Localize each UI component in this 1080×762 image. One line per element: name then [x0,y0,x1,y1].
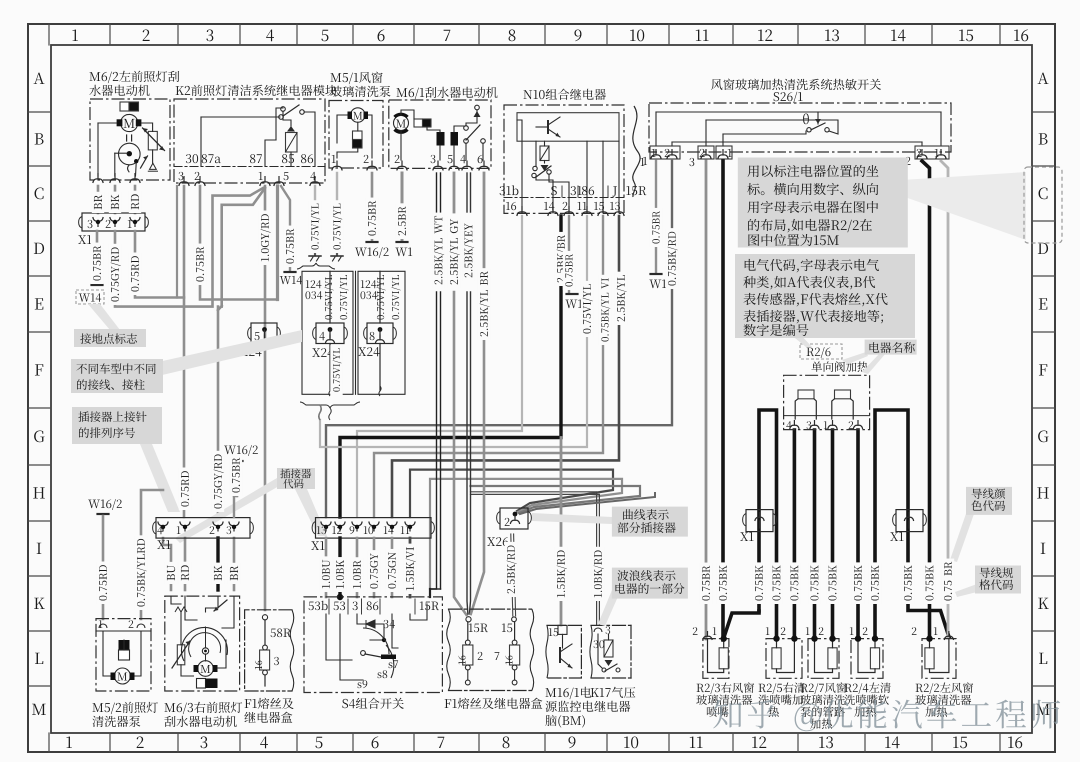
wire K2 pin5 [276,186,279,300]
M6/2 spark arrow [141,156,148,168]
fuse box F1-right [449,608,532,610]
M6/1 windings [437,132,445,146]
R2/6 pin forks [790,420,799,429]
wire M16 branch 1.5BK/RD [560,438,563,626]
M5/1 pin forks [332,161,342,171]
connector X26 [500,508,528,529]
wire bus N10 p11 to variants [320,216,587,447]
M5/1 pump body [353,131,363,140]
wire S26 pin2r to R2/2 pin2 [922,161,930,639]
N10 pin numbers [506,202,516,210]
fuse box F1-left [245,610,292,691]
wire S26 pin1r 0.75BR to R2/2 pin1 [941,161,948,637]
grid row letters [34,73,45,84]
wire bus N10 p15 to X1m p10 [374,216,603,517]
M6/2 motor M [121,114,138,131]
wire bus X26 feed3 [471,486,641,513]
S26/1 pin forks [651,149,661,159]
wire M6/1 pin2 2.5BR to W1 [401,173,404,240]
M6/3 resistor [177,645,185,665]
wire bus X26 feed1 to X1m p11 [410,470,613,517]
R2/6 pin numbers [786,421,791,429]
wire R2/6 pin2 to R2/4 pin1 [856,430,860,639]
wire bridge R2/3 to R2/5 [759,410,777,639]
wire R2/6 pin3 to R2/7 pin1 [813,430,817,639]
K17 relay coil [604,640,613,657]
wiper motor M6/3 label [165,702,243,714]
wire 0.75BR to W14 [96,231,99,283]
wire 0.75RD [135,231,184,298]
heater R2/4 label [845,683,891,694]
variant box right [358,271,405,394]
M6/2 pump circle [119,143,141,165]
C cell dashed highlight [1024,167,1062,243]
wire R2/6 pin4 to R2/5 pin2 [793,430,797,639]
switch S26/1 label [711,79,881,90]
fuse box F1-right label [445,698,543,709]
wire R2/6 pin1 to R2/7 pin2 [831,430,835,639]
switch S4 label [342,698,403,709]
wire X1mid to S4 labels [325,538,328,597]
wire 0.75GY/RD to K2 pin1 [115,188,263,307]
M16/1 pin 15 [558,625,567,634]
connector X24 pin8 [367,323,393,344]
wire K2 pin3 pair down [176,186,178,298]
callout wire-gauge-code box [955,584,977,597]
callout ground-mark [88,304,120,330]
F1-right fuse 2 [467,622,469,640]
callout beam to R2/6 [790,334,812,347]
relay module K2 box [174,99,325,183]
M6/2 resistor [148,131,157,150]
M6/3 park rect [197,679,206,689]
callout connector-code [295,489,327,536]
wire bus X26 feed4 K17 run [471,492,597,625]
ECU M16/1 label [546,687,592,699]
heater R2/2 [922,639,956,679]
wire 0.75BK/YLRD to M5/2 [141,490,163,619]
motor M6/2 box [90,99,170,180]
K17 switch [602,668,606,672]
F1-right fuse 7 [514,622,516,640]
N10 transistor symbol [547,121,549,133]
N10 internal wires [517,120,522,213]
heater R2/3 nozzle [703,639,729,679]
N10 right wavy part-line [633,106,640,197]
pump M5/1 label [331,72,383,85]
wire 1.0GY/RD K2 pin1 to F1 [264,186,267,610]
wire M5/1 pin2 0.75BR to W16/2 [371,173,374,240]
M6/3 motor M [198,661,214,677]
relay N10 box [504,105,624,213]
N10 relay coil [540,146,549,161]
wire 2.5BK/YL BR [483,173,486,283]
junction dot S4 53 [337,594,343,600]
S26/1 pin numbers [652,149,656,157]
connector X24 pin5 [251,323,277,344]
M6/1 park switch rect [414,119,423,127]
M16/1 transistor [559,648,561,662]
callout position-coordinates box [738,158,908,248]
connector X1 right-right [896,510,923,532]
S26/1 pin group brackets [650,146,680,159]
R2/6 heater element 2 [835,390,851,399]
M6/2 thermal triangle [149,163,156,169]
M6/1 thermal contact [475,105,480,110]
R2/6 pin row line [784,415,870,417]
wire M5/1 pin1 0.75VI/YL to ground [336,173,338,254]
heater R2/6 box [784,375,870,429]
K2 pin numbers 3 2 1 5 4 [179,172,184,180]
wire 0.75RD to M5/2 [102,516,105,619]
S4 wiper switch [361,651,366,656]
K2 terminal labels 30 87a 87 85 86 [186,154,198,163]
K17 diode triangle [605,660,613,666]
K2 relay coil diode triangle [287,126,295,132]
M5/2 pump body [119,640,130,650]
heater R2/3 label [697,682,755,694]
K2 pin forks [179,176,189,186]
variant brace bottom [300,402,360,408]
M5/1 motor M [351,108,365,122]
F1-left terminal 58R [262,615,267,620]
wiper motor M6/3 box [165,596,240,691]
watermark [713,699,1060,731]
M6/1 internal wires [400,131,402,161]
M6/1 switch contacts [464,126,469,131]
N10 terminal labels 31b S 31 86 J 15R [500,185,519,195]
K2 internal wires [201,116,280,118]
relay module K2 label [176,85,337,96]
heater R2/5 label [759,683,805,694]
callout pin-numbering [140,444,180,512]
K2 relay contact [281,107,286,112]
wire K2 pin2 0.75BR [200,186,277,300]
wire convergence to F1 15R [430,292,437,589]
heater R2/5 [766,639,802,679]
heater R2/7 [808,639,839,679]
S26/1 group labels [641,158,645,166]
N10 transistor box [517,113,619,142]
M6/2 pin forks [93,173,103,183]
N10 coil diode triangle [541,165,549,171]
connector X1 top-left [82,213,145,231]
wires X1 to M6/3 [163,538,171,590]
F1-left fuse [264,620,266,645]
switch S4 box [304,597,442,693]
connector X1 top-left label [78,235,91,244]
wiper motor M6/1 label [397,87,498,99]
heater R2/2 label [916,682,974,694]
variant internal wires [329,271,331,323]
N10 pin forks [517,206,527,216]
relay N10 label [524,89,606,100]
wiper motor M6/1 box [389,100,491,168]
wire bus S26p2 to X1m p13 0.75BK/RD [326,161,672,517]
wire bus N10 p16 to X1m p9 [357,216,522,517]
S26/1 theta switch [803,114,809,125]
wire K2 pin1 to X1b pin2 [222,188,265,307]
R2/6 heater element 1 [798,390,814,399]
M6/3 zigzag [175,607,187,612]
M5/1 internal wires [357,123,359,132]
wire X26 to F1 15 [511,534,513,616]
wire bus N10 p13 to X1m p14 [392,216,619,517]
wire bridge R2/4 to R2/2 [875,410,949,639]
F1-right terminals [466,617,471,622]
pump M5/2 box [96,619,151,691]
M6/3 wiper fan [181,627,227,661]
M5/2 internal wires [103,631,110,676]
ground W16/2 above M5/2 [88,499,122,510]
callout beam to C cell [902,172,1026,240]
K17 pin 3 [594,628,602,632]
fuse box F1-left label [245,698,294,709]
heater R2/7 label [801,682,847,694]
wire N10 p2 0.75BR to W1 [568,216,570,292]
N10 switch contacts [533,166,537,170]
S26/1 internal wires [656,111,941,113]
M6/2 internal park-switch rect [120,102,129,111]
callout device-name box [842,352,868,364]
wire S26 pin1m 0.75BK to R2/3 [721,161,725,640]
M6/2 coupling dashes [126,135,128,141]
grid column numbers [72,30,78,41]
callout electrical-codes box [735,254,915,338]
M6/2 internal wires [98,122,117,124]
connector X1 right-left [746,510,773,532]
M6/3 arrow [214,600,227,611]
ground W16/2 above X1b pin3 [224,445,258,456]
callout curve-connector box [532,513,612,524]
wire X1 to M6/2 [97,186,100,213]
wire 2.5BK/YL WT double [436,173,438,212]
relay K17 label [591,687,636,698]
relay K17 box [630,625,632,678]
M6/1 pin numbers [395,155,400,163]
motor M6/2 label [90,71,180,83]
R2/6 dashed label box [800,344,842,359]
M5/1 pin numbers [332,155,336,163]
wire bus N10 p14 to X1m p12 2.5BK/BR [340,216,561,517]
K17 internal wires [598,634,602,668]
wire bus X26 feed2 to S4 15R [430,479,622,589]
switch S26/1 box [649,103,951,152]
callout wire-color-code box [950,505,975,562]
wire K2 pin4 0.75VI/YL to ground [314,186,316,254]
S4 terminal labels [309,601,328,610]
ground W14 dashed box [76,290,104,304]
M6/1 pin forks [397,161,407,171]
callout wavy-line box [598,590,620,626]
callout variant-wiring [158,330,302,376]
connector X1 bottom-left [156,518,250,539]
S4 internal wires [326,614,352,660]
wire 2.5BK/YL GY [453,173,456,212]
M5/2 pin arcs [99,624,107,628]
M6/1 motor M with brushes [394,116,409,131]
wire S26-1L 0.75BR to W1 [655,161,657,272]
pump M5/2 label [93,702,158,714]
wire S26 pin2m 0.75BR to R2/3 [705,161,708,639]
connector X1 mid (S4) [316,518,432,539]
K2 relay coil [286,133,298,153]
heater R2/4 [851,639,883,679]
variant box left [302,271,353,394]
variant brace top [297,263,335,269]
ECU M16/1 box [547,625,581,678]
M5/2 motor M [114,668,130,684]
S4 diode 34 [366,620,375,628]
wire K2 pin5b 0.75BR to W14 [281,186,290,270]
connector X24 pin4 [316,323,344,344]
wire 2.5BK/YE double [466,173,468,212]
M6/3 internal wires [171,596,181,604]
pump M5/1 box [329,101,383,169]
